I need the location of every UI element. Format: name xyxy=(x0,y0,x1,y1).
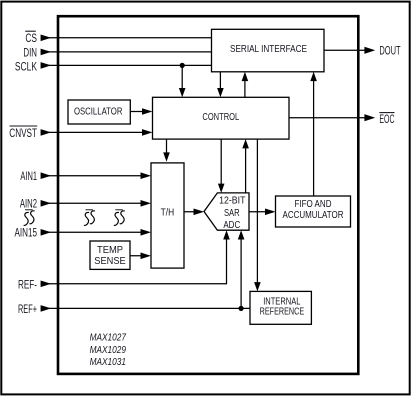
input arrowhead REF+ xyxy=(41,305,52,312)
svg-text:REFERENCE: REFERENCE xyxy=(260,306,305,317)
arrowhead up into SERIAL INTERFACE bottom xyxy=(310,72,317,81)
svg-text:OSCILLATOR: OSCILLATOR xyxy=(74,107,123,118)
arrowhead into CONTROL left xyxy=(142,129,153,136)
svg-text:SAR: SAR xyxy=(224,208,240,219)
arrowhead into T/H left xyxy=(141,172,152,179)
svg-text:SERIAL INTERFACE: SERIAL INTERFACE xyxy=(230,44,307,55)
chip boundary rectangle xyxy=(58,16,358,374)
wire TEMP SENSE to T/H xyxy=(130,255,149,257)
svg-text:ADC: ADC xyxy=(223,220,240,231)
pin label CNVST with overline xyxy=(9,126,37,140)
arrowhead into ADC left vertex xyxy=(194,209,205,216)
arrowhead into CONTROL left xyxy=(142,108,153,115)
svg-text:SENSE: SENSE xyxy=(94,256,126,267)
squiggle break symbol on wires 1 xyxy=(84,210,95,226)
input arrowhead AIN2 xyxy=(41,200,52,207)
svg-text:AIN15: AIN15 xyxy=(15,226,38,240)
wire CONTROL up to SERIAL INTERFACE xyxy=(244,76,246,98)
svg-text:MAX1027: MAX1027 xyxy=(90,333,127,344)
wire OSCILLATOR to CONTROL xyxy=(130,111,149,113)
block INTERNAL REFERENCE xyxy=(250,291,311,324)
svg-text:12-BIT: 12-BIT xyxy=(219,196,245,207)
svg-text:CONTROL: CONTROL xyxy=(202,112,239,123)
svg-text:REF+: REF+ xyxy=(18,302,37,316)
wire DIN to SERIAL INTERFACE xyxy=(41,51,212,53)
output arrowhead DOUT xyxy=(364,47,375,54)
input arrowhead AIN1 xyxy=(41,172,52,179)
input arrowhead AIN15 xyxy=(41,229,52,236)
arrowhead up into ADC bottom xyxy=(223,230,230,239)
arrowhead into T/H left xyxy=(141,229,152,236)
pin label EOC with overline xyxy=(379,112,394,126)
wire CONTROL down to INTERNAL REFERENCE xyxy=(256,139,258,287)
junction dot on SCLK wire xyxy=(180,63,185,68)
svg-text:MAX1029: MAX1029 xyxy=(90,345,127,356)
svg-text:FIFO AND: FIFO AND xyxy=(295,199,332,210)
block SERIAL INTERFACE xyxy=(212,29,325,72)
block 12-BIT SAR ADC (pentagon) xyxy=(204,193,249,231)
input arrowhead CNVST xyxy=(41,129,52,136)
svg-text:SCLK: SCLK xyxy=(15,59,37,73)
wire SCLK junction down to CONTROL xyxy=(181,65,183,93)
squiggle break symbol left of border xyxy=(24,210,35,226)
input arrowhead CS xyxy=(41,35,52,42)
wire REF+ to INTERNAL REFERENCE xyxy=(41,307,250,309)
wire CNVST to CONTROL xyxy=(41,131,149,133)
arrowhead down into CONTROL top xyxy=(179,88,186,97)
arrowhead up into CONTROL bottom xyxy=(242,139,249,148)
wire FIFO up to SERIAL INTERFACE xyxy=(313,76,315,197)
arrowhead down into INTERNAL REFERENCE top xyxy=(254,282,261,291)
wire T/H to ADC xyxy=(184,211,201,213)
arrowhead down into CONTROL top xyxy=(217,88,224,97)
wire ADC up to CONTROL xyxy=(245,143,247,193)
junction dot on REF+ wire xyxy=(239,306,244,311)
wire CONTROL down to ADC xyxy=(220,139,222,189)
wire CONTROL down to T/H xyxy=(166,139,168,158)
block FIFO AND ACCUMULATOR xyxy=(276,196,351,227)
arrowhead into T/H left xyxy=(141,253,152,260)
arrowhead down into ADC top xyxy=(218,184,225,193)
wire AIN2 to T/H xyxy=(41,202,149,204)
svg-text:EOC: EOC xyxy=(379,112,394,126)
block OSCILLATOR xyxy=(68,100,130,124)
wire CS to SERIAL INTERFACE xyxy=(41,37,212,39)
svg-text:DOUT: DOUT xyxy=(379,44,401,58)
pin label CS with overline xyxy=(25,31,37,45)
arrowhead into T/H left xyxy=(141,200,152,207)
svg-text:CS: CS xyxy=(25,31,37,45)
svg-text:TEMP: TEMP xyxy=(97,245,123,256)
svg-text:CNVST: CNVST xyxy=(9,126,37,140)
svg-text:ACCUMULATOR: ACCUMULATOR xyxy=(283,210,344,221)
wire SCLK to SERIAL INTERFACE xyxy=(41,64,212,66)
wire REF+ junction up to ADC bottom xyxy=(240,234,242,308)
wire AIN1 to T/H xyxy=(41,175,149,177)
squiggle break symbol on wires 2 xyxy=(114,210,125,226)
svg-text:DIN: DIN xyxy=(23,45,37,59)
output arrowhead EOC xyxy=(364,114,375,121)
input arrowhead REF- xyxy=(41,281,52,288)
wire EOC from CONTROL to chip edge xyxy=(289,117,366,119)
input arrowhead SCLK xyxy=(41,62,52,69)
wire AIN15 to T/H xyxy=(41,231,149,233)
svg-text:REF-: REF- xyxy=(18,277,37,291)
svg-text:MAX1031: MAX1031 xyxy=(90,357,126,368)
wire ADC to FIFO xyxy=(249,211,272,213)
svg-text:AIN1: AIN1 xyxy=(20,169,37,183)
svg-text:AIN2: AIN2 xyxy=(20,196,37,210)
block T/H xyxy=(151,163,184,268)
wire DOUT from SERIAL INTERFACE to chip edge xyxy=(324,49,366,51)
wire REF- to ADC bottom xyxy=(41,234,227,284)
arrowhead into FIFO left xyxy=(265,209,276,216)
arrowhead up into SERIAL INTERFACE bottom xyxy=(242,72,249,81)
arrowhead up into ADC bottom xyxy=(238,230,245,239)
svg-text:T/H: T/H xyxy=(161,207,175,218)
block TEMP SENSE xyxy=(90,241,130,269)
arrowhead down into T/H top xyxy=(163,152,170,161)
block CONTROL xyxy=(153,97,290,139)
wire SERIAL INTERFACE down to CONTROL xyxy=(219,72,221,94)
input arrowhead DIN xyxy=(41,49,52,56)
